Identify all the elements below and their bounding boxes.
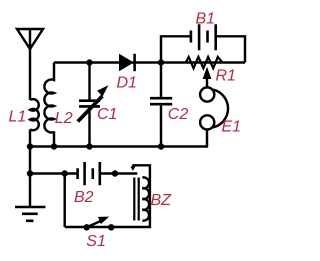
junction dot B2 right	[112, 170, 118, 176]
wiper arrow of R1	[206, 76, 208, 88]
wire L2 bottom	[53, 131, 55, 146]
wire C1 bottom	[88, 108, 90, 147]
junction dot top C1	[86, 59, 92, 65]
junction dot bottom L2	[51, 143, 57, 149]
wire B2 row left	[30, 172, 78, 174]
resistor R1	[186, 57, 223, 68]
capacitor C1 arrow	[76, 85, 108, 123]
battery B1 loop wires	[161, 36, 245, 62]
ground	[15, 206, 46, 209]
earphone E1 circles	[200, 87, 214, 101]
wire C2 branch top	[160, 63, 162, 97]
buzzer BZ coil	[142, 177, 149, 220]
junction dot B2 left	[61, 170, 67, 176]
junction dot bottom antenna/ground	[27, 143, 33, 149]
svg-text:BZ: BZ	[151, 192, 173, 209]
junction dot bottom C1	[86, 143, 92, 149]
wire bottom loop	[65, 165, 150, 227]
wire lower loop left	[63, 174, 65, 228]
battery B2 plates	[78, 162, 100, 185]
switch S1 lever	[87, 221, 102, 228]
wire antenna to L1	[29, 49, 31, 100]
buzzer contact arrow	[132, 165, 134, 167]
antenna	[17, 29, 43, 49]
wire C1 branch top	[88, 63, 90, 101]
junction dot top C2/B1	[158, 59, 164, 65]
wire L1 bottom	[29, 129, 31, 146]
wire top rail	[54, 61, 245, 63]
wire B2 row right	[100, 172, 138, 174]
svg-text:L1: L1	[9, 109, 27, 126]
wire ground stem	[29, 147, 31, 208]
inductor L2	[44, 63, 54, 133]
inductor L1	[30, 99, 39, 130]
svg-text:S1: S1	[86, 233, 106, 250]
buzzer BZ core	[134, 178, 138, 221]
svg-text:B2: B2	[74, 189, 94, 206]
svg-text:L2: L2	[55, 110, 73, 127]
earphone E1 arc	[213, 90, 228, 128]
svg-text:C2: C2	[168, 106, 189, 123]
junction dot ground/B2	[27, 170, 33, 176]
svg-text:R1: R1	[216, 68, 236, 85]
junction dot bottom C2	[158, 143, 164, 149]
svg-text:C1: C1	[97, 106, 117, 123]
capacitor C1 plates	[79, 101, 100, 107]
wire E1 bottom	[206, 129, 208, 147]
svg-text:D1: D1	[117, 74, 137, 91]
capacitor C2 plates	[150, 98, 172, 104]
svg-text:E1: E1	[222, 119, 242, 136]
svg-text:B1: B1	[196, 10, 216, 27]
diode D1	[119, 54, 136, 71]
wire bottom rail	[30, 145, 208, 147]
switch S1 terminal left	[84, 224, 90, 230]
wire C2 bottom	[160, 106, 162, 147]
battery B1 plates	[191, 24, 216, 50]
switch S1 terminal right	[108, 224, 114, 230]
